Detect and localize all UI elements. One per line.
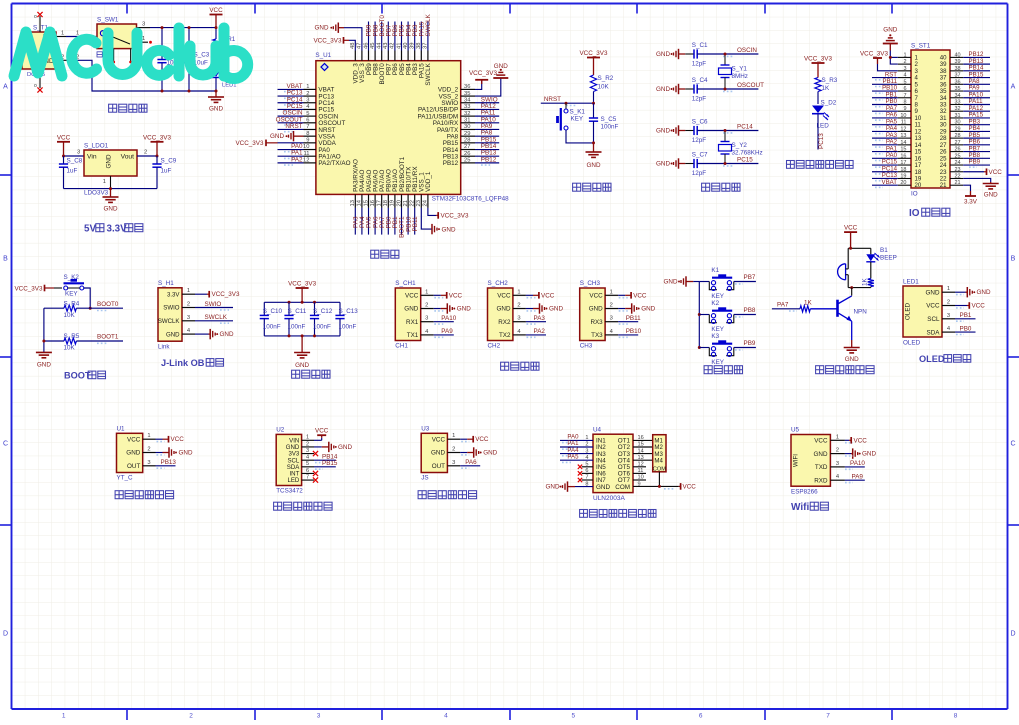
svg-text:B1: B1 — [880, 247, 888, 254]
wire/net PA11 header pin33 — [963, 98, 990, 107]
power VCC S_CH2 — [526, 292, 555, 299]
svg-text:GND: GND — [483, 450, 497, 457]
svg-text:WIFI: WIFI — [793, 454, 800, 467]
svg-text:100nF: 100nF — [288, 324, 306, 331]
resistor S_R5 10K — [44, 333, 123, 352]
LED S_D1 — [212, 69, 237, 93]
wire/net BOOT0 U1 top — [379, 15, 386, 51]
U1 left pin stubs — [303, 84, 316, 163]
wire COM net U4 pin9 — [633, 472, 679, 489]
ground GND crystal row S_C7 — [656, 158, 685, 168]
svg-text:33: 33 — [464, 104, 470, 110]
svg-text:VCC: VCC — [926, 303, 940, 310]
svg-text:12pF: 12pF — [692, 170, 707, 177]
svg-text:VCC_3V3: VCC_3V3 — [313, 37, 341, 44]
svg-text:20: 20 — [915, 182, 922, 189]
wire/net PB9 key K3 — [734, 340, 756, 350]
wire/net PC13 header pin19 — [872, 172, 898, 181]
caption OLED显示屏 — [919, 354, 971, 364]
wire/net PB4 header pin29 — [963, 125, 990, 134]
wire/net PB8 key K2 — [734, 307, 756, 317]
svg-text:12pF: 12pF — [692, 96, 707, 103]
wire/net PB8 header pin25 — [963, 152, 990, 161]
svg-text:1: 1 — [517, 289, 520, 295]
svg-text:14: 14 — [900, 140, 906, 146]
svg-text:20: 20 — [900, 180, 906, 186]
caption 滤波电路 — [292, 370, 330, 378]
wire/net PA7 header pin9 — [872, 105, 898, 114]
wire/net PA9 header pin35 — [963, 85, 990, 94]
wire VCC to LDO Vin — [62, 150, 84, 158]
svg-text:100nF: 100nF — [601, 124, 619, 131]
power VCC_3V3 U1 VDD_1 pin24 — [428, 208, 469, 220]
svg-text:VCC: VCC — [475, 436, 489, 443]
ground GND header pin22 — [963, 178, 999, 198]
wire/net PB15 header pin37 — [963, 71, 990, 80]
svg-text:o: o — [34, 83, 37, 89]
svg-text:3: 3 — [306, 448, 309, 454]
power VCC S_CH1 — [434, 292, 463, 299]
svg-text:2: 2 — [517, 303, 520, 309]
svg-text:1K: 1K — [862, 277, 869, 286]
svg-text:PA3: PA3 — [534, 315, 546, 322]
svg-text:GND: GND — [664, 279, 678, 286]
svg-text:2: 2 — [836, 448, 839, 454]
svg-text:3: 3 — [142, 22, 145, 28]
svg-text:GND: GND — [295, 362, 309, 369]
svg-text:PB7: PB7 — [744, 274, 756, 281]
ground GND OLED — [955, 287, 991, 297]
net PB14 U2 SCL — [314, 453, 338, 462]
U1 bottom pin stubs — [350, 194, 429, 208]
svg-text:GND: GND — [431, 450, 445, 457]
caption Wifi模块 — [791, 502, 828, 513]
wire/net PB14 header pin38 — [963, 65, 990, 74]
svg-text:SWIO: SWIO — [163, 305, 180, 312]
svg-text:SCL: SCL — [927, 316, 940, 323]
IC S_U1 STM32F103C8T6 body — [315, 52, 509, 203]
wire/net PA1 U4 IN2 — [560, 440, 593, 449]
module U1 YT_C body — [117, 426, 156, 482]
net label BOOT0 — [97, 301, 119, 311]
svg-text:S_U1: S_U1 — [315, 52, 331, 59]
svg-text:VCC: VCC — [683, 484, 697, 491]
svg-text:5: 5 — [571, 713, 575, 720]
svg-text:1: 1 — [610, 289, 613, 295]
svg-text:Wifi: Wifi — [791, 502, 809, 513]
svg-text:TX1: TX1 — [407, 332, 419, 339]
svg-text:SWCLK: SWCLK — [425, 13, 432, 36]
svg-text:PA10: PA10 — [850, 460, 865, 467]
wire/net PA6 U1 bottom — [372, 208, 379, 235]
wire/net PA15 U1 top — [419, 21, 426, 50]
wire alarm top node — [848, 247, 871, 250]
svg-text:1K: 1K — [804, 300, 813, 307]
net PB15 U2 SDA — [314, 460, 338, 469]
svg-text:GND: GND — [641, 306, 655, 313]
svg-text:S_K1: S_K1 — [570, 109, 586, 116]
svg-text:1uF: 1uF — [161, 168, 172, 175]
svg-text:3: 3 — [610, 316, 613, 322]
wire SW1 pin3 top rail — [137, 22, 217, 28]
svg-text:C: C — [1010, 441, 1015, 448]
svg-text:2: 2 — [425, 303, 428, 309]
wire/net PA6 header pin10 — [872, 112, 898, 121]
svg-text:S_C5: S_C5 — [601, 116, 617, 123]
svg-text:VCC: VCC — [497, 293, 511, 300]
stub U4 OT7 — [633, 479, 646, 481]
svg-text:U1: U1 — [117, 426, 126, 433]
power VCC OLED — [955, 302, 985, 309]
svg-text:10K: 10K — [64, 345, 76, 352]
svg-text:32: 32 — [955, 106, 961, 112]
svg-text:GND: GND — [457, 306, 471, 313]
svg-text:U2: U2 — [276, 427, 285, 434]
svg-text:GND: GND — [596, 484, 610, 491]
svg-text:S_Y1: S_Y1 — [732, 66, 748, 73]
svg-text:B: B — [3, 256, 8, 263]
svg-text:VCC_3V3: VCC_3V3 — [14, 285, 42, 292]
svg-text:S_C10: S_C10 — [263, 308, 283, 315]
stub U4 OT6 — [633, 472, 646, 474]
wire/net PC13 U1 pin2 — [278, 90, 304, 99]
power VCC header pin23 — [963, 168, 1002, 175]
svg-text:OLED: OLED — [919, 354, 945, 364]
svg-text:KEY: KEY — [711, 326, 724, 333]
net label PC14 — [723, 124, 753, 133]
svg-text:S_R5: S_R5 — [64, 333, 80, 340]
wire/net PA1 header pin15 — [872, 145, 898, 154]
svg-text:KEY: KEY — [571, 116, 584, 123]
svg-text:25: 25 — [955, 153, 961, 159]
capacitor S_C5 100nF — [589, 103, 619, 144]
power VCC_3V3 header pin3 — [860, 51, 898, 71]
svg-text:25: 25 — [464, 158, 470, 164]
svg-text:100nF: 100nF — [339, 324, 357, 331]
wire filter top rail — [264, 301, 340, 304]
svg-text:12pF: 12pF — [692, 61, 707, 68]
svg-text:VCC_3V3: VCC_3V3 — [441, 213, 469, 220]
svg-text:GND: GND — [338, 444, 352, 451]
caption 主芯片 — [371, 250, 399, 258]
wire/net PB6 header pin27 — [963, 139, 990, 148]
svg-text:6: 6 — [903, 86, 906, 92]
net SWIO S_H1 — [195, 301, 233, 310]
svg-text:PB13: PB13 — [161, 459, 177, 466]
svg-text:PB8: PB8 — [744, 307, 756, 314]
svg-text:2: 2 — [452, 447, 455, 453]
svg-text:6: 6 — [306, 118, 309, 124]
svg-text:K3: K3 — [711, 333, 719, 340]
svg-text:GND: GND — [315, 25, 329, 32]
wire/net NRST U1 pin7 — [278, 123, 304, 132]
svg-text:2: 2 — [903, 59, 906, 65]
connector S_CH2 body — [488, 280, 526, 350]
key K3 KEY — [699, 333, 734, 366]
wire/net PB5 U1 top — [399, 22, 406, 51]
svg-text:13: 13 — [350, 200, 356, 206]
power port VCC_3V3 (LDO output) — [143, 135, 171, 157]
capacitor S_C1 12pF — [685, 42, 758, 67]
svg-text:YT_C: YT_C — [117, 475, 134, 482]
svg-text:OLED: OLED — [903, 340, 921, 347]
svg-text:7: 7 — [826, 713, 830, 720]
svg-text:S_C8: S_C8 — [67, 158, 83, 165]
svg-text:2: 2 — [610, 303, 613, 309]
svg-text:U5: U5 — [791, 427, 800, 434]
U1 left pin names — [318, 87, 350, 167]
caption 串口电路 — [501, 362, 539, 370]
wire/net PC14 U1 pin3 — [278, 96, 304, 105]
svg-text:5: 5 — [306, 111, 309, 117]
net PB13 U1 — [156, 459, 177, 468]
net PA9 S_CH1 TX — [434, 328, 454, 337]
svg-text:SWCLK: SWCLK — [205, 314, 228, 321]
svg-text:GND: GND — [106, 154, 113, 168]
svg-text:6: 6 — [306, 468, 309, 474]
transistor NPN Q1 — [810, 296, 867, 340]
ground GND crystal row S_C6 — [656, 125, 685, 135]
svg-text:S_K2: S_K2 — [64, 274, 80, 281]
svg-text:3: 3 — [452, 460, 455, 466]
svg-text:10: 10 — [303, 144, 309, 150]
power VCC_3V3 S_H1 — [195, 291, 240, 298]
power port VCC (LDO input) — [57, 135, 71, 157]
svg-text:21: 21 — [940, 182, 947, 189]
LED B1 BEEP — [866, 247, 897, 279]
svg-text:22: 22 — [955, 173, 961, 179]
svg-text:37: 37 — [955, 73, 961, 79]
wire/net PB12 U1 pin25 — [475, 156, 499, 165]
svg-text:KEY: KEY — [711, 359, 724, 366]
resistor S_R3 1K — [815, 77, 838, 104]
svg-text:VCC: VCC — [814, 438, 828, 445]
power VCC_3V3 U1 VDD_3 pin48 — [313, 37, 355, 51]
svg-text:RXD: RXD — [814, 477, 828, 484]
svg-text:33: 33 — [955, 99, 961, 105]
wire/net PA3 U1 bottom — [353, 208, 360, 235]
caption 四相五线步进电机 — [580, 509, 656, 517]
svg-text:3.3V: 3.3V — [964, 199, 978, 206]
svg-text:35: 35 — [955, 86, 961, 92]
svg-text:PB10: PB10 — [626, 328, 642, 335]
caption BOOT电路 — [64, 371, 106, 381]
svg-text:3: 3 — [425, 316, 428, 322]
capacitor S_C2 100uF — [157, 28, 184, 91]
ground GND filter — [294, 336, 310, 369]
svg-text:PB12: PB12 — [443, 160, 459, 167]
svg-text:LED1: LED1 — [903, 279, 919, 286]
svg-text:GND: GND — [179, 450, 193, 457]
svg-text:PC15: PC15 — [737, 157, 753, 164]
power VCC U3 — [460, 436, 489, 443]
svg-text:1: 1 — [947, 286, 950, 292]
svg-text:9: 9 — [903, 106, 906, 112]
power VCC_3V3 BOOT — [14, 285, 62, 293]
svg-text:Vout: Vout — [121, 154, 135, 161]
svg-text:2: 2 — [306, 441, 309, 447]
resistor 1K alarm — [862, 277, 874, 287]
svg-text:3.3V: 3.3V — [167, 291, 180, 298]
wire T1 pin2 to bottom rail — [56, 54, 216, 91]
net NRST wire — [541, 96, 595, 106]
svg-text:GND: GND — [656, 86, 670, 93]
svg-text:U3: U3 — [421, 426, 430, 433]
U1 right pin names — [417, 87, 459, 167]
svg-text:S_R4: S_R4 — [64, 300, 80, 307]
svg-text:TXD: TXD — [815, 464, 828, 471]
svg-text:KEY: KEY — [65, 291, 78, 298]
svg-text:GND: GND — [589, 306, 603, 313]
svg-text:GND: GND — [270, 133, 284, 140]
svg-text:3: 3 — [187, 315, 190, 321]
caption 程序运行指示灯 — [787, 160, 854, 168]
wire T1 pin1 to SW1 — [56, 31, 97, 37]
svg-text:27: 27 — [955, 140, 961, 146]
svg-text:40: 40 — [955, 52, 961, 58]
svg-text:VCC: VCC — [844, 225, 858, 232]
svg-text:13: 13 — [900, 133, 906, 139]
wire/net BOOT1 U1 bottom — [399, 208, 406, 238]
svg-text:S_C9: S_C9 — [161, 158, 177, 165]
svg-text:3: 3 — [317, 713, 321, 720]
svg-text:21: 21 — [955, 180, 961, 186]
svg-text:OLED: OLED — [905, 302, 912, 320]
svg-text:SWCLK: SWCLK — [425, 62, 432, 85]
LED D2 — [812, 100, 837, 130]
module U2 TCS3472 body — [276, 427, 314, 495]
svg-text:VCC: VCC — [854, 437, 868, 444]
wire/net PB6 U1 top — [392, 22, 399, 51]
wire/net PB9 header pin24 — [963, 159, 990, 168]
wire/net PC15 header pin17 — [872, 159, 898, 168]
capacitor S_C4 12pF — [685, 77, 758, 102]
wire/net PB10 U1 bottom — [405, 208, 412, 235]
svg-text:PC14: PC14 — [737, 124, 753, 131]
ground GND U3 — [460, 447, 497, 457]
U1 right pin stubs — [461, 84, 475, 163]
svg-text:VCC_3V3: VCC_3V3 — [235, 140, 263, 147]
svg-text:K1: K1 — [711, 267, 719, 274]
capacitor S_C12 100nF — [310, 302, 333, 336]
svg-text:PC13: PC13 — [818, 133, 825, 149]
regulator S_LDO1 LDO3V3 — [84, 143, 137, 197]
svg-text:VCC_3V3: VCC_3V3 — [212, 291, 240, 298]
svg-text:PA9: PA9 — [852, 474, 864, 481]
svg-text:GND: GND — [209, 106, 223, 113]
svg-text:S_Y2: S_Y2 — [732, 142, 748, 149]
wire/net PC15 U1 pin4 — [278, 103, 304, 112]
svg-text:36: 36 — [955, 79, 961, 85]
wire/net PA0 U1 pin10 — [278, 143, 304, 152]
svg-text:VCC: VCC — [432, 436, 446, 443]
svg-text:KEY: KEY — [711, 293, 724, 300]
svg-text:GND: GND — [883, 27, 897, 34]
svg-text:7: 7 — [306, 474, 309, 480]
svg-text:NRST: NRST — [285, 123, 302, 130]
svg-text:S_C11: S_C11 — [288, 308, 307, 315]
ground GND U1 VSS_3 pin47 — [315, 23, 362, 51]
wire/net PA0 header pin16 — [872, 152, 898, 161]
svg-text:JS: JS — [421, 475, 428, 482]
svg-text:NRST: NRST — [544, 96, 561, 103]
wire/net PB13 header pin39 — [963, 58, 990, 67]
wire/net PB3 header pin30 — [963, 118, 990, 127]
caption 液体触发模块 — [115, 491, 174, 499]
svg-text:VCC_3V3: VCC_3V3 — [288, 281, 316, 288]
svg-text:GND: GND — [497, 306, 511, 313]
wire/net PB8 U1 top — [372, 22, 379, 51]
svg-text:3.3V: 3.3V — [107, 224, 128, 235]
svg-text:34: 34 — [464, 97, 471, 103]
ground GND U5 — [845, 448, 877, 458]
svg-text:PA9: PA9 — [441, 328, 453, 335]
junction dots C2 — [161, 26, 164, 92]
ground GND U2 — [314, 442, 352, 452]
ground GND crystal row S_C4 — [656, 84, 685, 94]
wire/net PB11 header pin5 — [872, 78, 898, 87]
wire keys bus — [698, 282, 701, 350]
svg-text:16: 16 — [370, 200, 376, 206]
wire U4 OT2 to motor M2 — [633, 446, 653, 448]
svg-text:38: 38 — [955, 66, 961, 72]
svg-text:S_C6: S_C6 — [692, 119, 708, 126]
svg-text:PB1: PB1 — [960, 312, 972, 319]
svg-text:J-Link OB: J-Link OB — [161, 358, 205, 368]
svg-text:NPN: NPN — [854, 309, 868, 316]
svg-text:GND: GND — [984, 192, 998, 199]
svg-text:GND: GND — [587, 162, 601, 169]
svg-text:GND: GND — [442, 226, 456, 233]
svg-text:COM: COM — [615, 484, 630, 491]
wire filter bottom rail — [264, 334, 340, 337]
svg-text:VDD_1: VDD_1 — [425, 171, 432, 192]
svg-text:TCS3472: TCS3472 — [276, 488, 303, 495]
caption IO拓展口 — [909, 208, 950, 219]
wire/net VBAT U1 pin1 — [278, 83, 304, 92]
svg-text:S_R3: S_R3 — [822, 77, 838, 84]
svg-text:2: 2 — [947, 300, 950, 306]
svg-text:GND: GND — [549, 306, 563, 313]
svg-text:CH1: CH1 — [395, 343, 408, 350]
connector motor M1-M4 body — [653, 435, 667, 473]
svg-text:VCC: VCC — [589, 293, 603, 300]
power VCC_3V3 reset — [579, 50, 607, 75]
wire/net PA2 header pin14 — [872, 139, 898, 148]
svg-text:S_C7: S_C7 — [692, 152, 708, 159]
no-connect U2 INT — [313, 471, 318, 476]
svg-text:9: 9 — [306, 138, 309, 144]
no-connect U4 IN6 — [578, 471, 593, 475]
svg-text:19: 19 — [390, 200, 396, 206]
wire/net SWCLK U1 top — [425, 13, 432, 50]
svg-text:35: 35 — [464, 91, 470, 97]
svg-text:5V: 5V — [84, 224, 96, 235]
svg-text:7: 7 — [306, 124, 309, 130]
wire/net PC14 header pin18 — [872, 165, 898, 174]
svg-text:1: 1 — [187, 288, 190, 294]
svg-text:100nF: 100nF — [263, 324, 281, 331]
net label PC15 — [723, 157, 753, 166]
svg-text:28: 28 — [464, 138, 470, 144]
wire/net PB11 U1 bottom — [412, 208, 419, 235]
wire/net PA5 header pin11 — [872, 118, 898, 127]
svg-text:8: 8 — [903, 99, 906, 105]
resistor S_R1 1K — [213, 26, 236, 70]
wire/net PB10 header pin6 — [872, 85, 898, 94]
wire/net PA12 header pin32 — [963, 105, 990, 114]
wire/net PA5 U4 IN4 — [560, 453, 593, 462]
